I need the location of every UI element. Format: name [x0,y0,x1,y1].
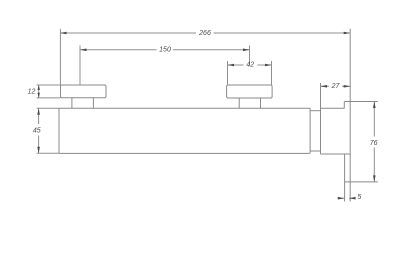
svg-text:5: 5 [357,194,361,201]
arrow 12 bottom [38,93,40,98]
right handle neck right edge [260,98,262,108]
arrow 266 left [60,32,67,35]
right handle flange [227,85,273,98]
right handle neck left edge [238,98,240,108]
body right section bottom edge [321,153,351,155]
dim 12 bottom extension line [37,97,61,99]
dim 45 bottom extension line [37,152,59,154]
dim 12 top extension line [37,84,61,86]
svg-text:45: 45 [33,127,41,134]
left handle flange [61,85,107,98]
dim 45 line [38,108,40,153]
dim 27 line [321,85,351,87]
arrow 27 right [344,85,351,88]
dim 266 line [60,32,350,34]
arrow 150 right [243,49,250,52]
svg-text:42: 42 [246,62,254,69]
arrow 45 top [37,108,40,115]
arrow 76 bottom [373,175,376,182]
svg-text:76: 76 [370,140,378,147]
dim 42 line [228,64,272,66]
main body bar left end edge [58,108,60,153]
arrow 266 right [344,32,351,35]
connector ring right edge / 27 extension line [320,83,322,154]
dim 42 left extension line [227,61,229,85]
svg-text:150: 150 [159,47,171,54]
dim 42 right extension line [271,61,273,85]
arrow 12 top [38,85,40,90]
main body bar bottom edge [59,152,310,154]
svg-text:12: 12 [28,89,36,96]
wall plate left edge [344,154,346,202]
wall plate bottom / 76 bottom extension line [345,181,378,183]
left handle neck left edge [71,98,73,109]
arrow 5 right [349,197,356,200]
arrow 76 top [373,102,376,109]
main body bar top edge [59,107,344,109]
svg-text:266: 266 [198,30,211,37]
svg-text:27: 27 [331,83,341,90]
wall plate top / 76 top extension line [344,101,378,103]
dim 12 line [38,85,40,98]
dim 76 line [373,102,375,182]
connector ring bottom edge [310,150,320,152]
connector ring top edge [310,110,320,112]
dim 45 top extension line [37,107,59,109]
arrow 27 left [321,85,328,88]
dim 150 left extension line [79,46,81,85]
left handle neck right edge [92,98,94,109]
dim 5 line left tail [338,197,345,199]
dim 266 left extension line [59,29,61,85]
arrow 5 left [338,197,345,200]
arrow 42 right [265,64,272,67]
dim 150 right extension line [249,46,251,66]
wall plate step edge [343,102,345,109]
arrow 150 left [80,49,87,52]
arrow 42 left [228,64,235,67]
connector ring left edge [309,108,311,153]
arrow 45 bottom [37,147,40,154]
dim 150 line [80,49,250,51]
dim 5 line right tail [349,197,354,199]
wall plate right edge / 266 and 5 extension line [349,29,351,202]
